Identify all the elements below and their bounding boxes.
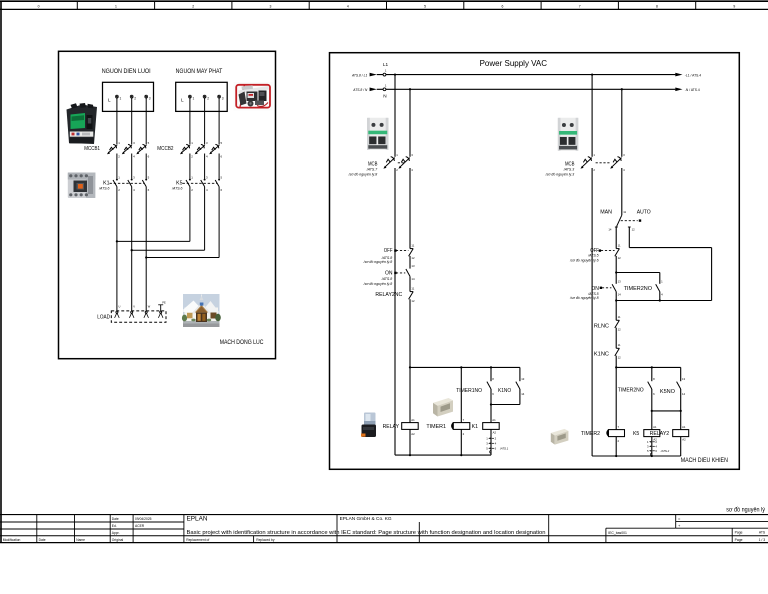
svg-text:11: 11 xyxy=(411,286,414,290)
label MAN xyxy=(600,210,612,216)
photo MCCB breaker xyxy=(67,103,98,144)
svg-text:/ATS.6: /ATS.6 xyxy=(98,187,109,191)
photo house load xyxy=(182,294,221,327)
contact K5NO xyxy=(651,367,686,429)
photo MCB right xyxy=(558,118,579,151)
label K1 xyxy=(98,181,110,191)
coil TIMER1 xyxy=(452,367,470,455)
label K5NO xyxy=(660,389,676,395)
svg-text:TIMER2NO: TIMER2NO xyxy=(624,286,653,292)
svg-text:8: 8 xyxy=(656,4,658,8)
svg-text:/sơ đồ nguyên lý.8: /sơ đồ nguyên lý.8 xyxy=(363,260,393,264)
title block drawing number xyxy=(608,531,627,535)
svg-text:MACH DONG LUC: MACH DONG LUC xyxy=(220,339,264,346)
svg-text:4: 4 xyxy=(495,442,497,446)
svg-text:Basic project with identificat: Basic project with identification struct… xyxy=(187,530,546,536)
source arrow ATS.8/L1 xyxy=(351,73,377,78)
svg-text:1: 1 xyxy=(193,97,195,101)
wire K1 outputs to load xyxy=(117,187,146,312)
svg-text:2: 2 xyxy=(618,439,620,443)
svg-text:TIMER2NO: TIMER2NO xyxy=(618,388,644,394)
title Power Supply VAC xyxy=(480,59,548,68)
svg-text:1: 1 xyxy=(486,437,488,441)
svg-text:4: 4 xyxy=(623,168,625,172)
svg-text:1: 1 xyxy=(191,176,193,180)
photo timer relay 1 xyxy=(433,398,453,417)
label OFF right xyxy=(569,248,599,263)
svg-text:2: 2 xyxy=(191,155,193,159)
svg-text:NGUON MAY PHAT: NGUON MAY PHAT xyxy=(176,68,223,75)
svg-text:A1: A1 xyxy=(411,418,415,422)
svg-text:W: W xyxy=(148,305,151,309)
svg-text:1: 1 xyxy=(385,83,387,87)
label MCCB1 xyxy=(84,146,100,152)
svg-text:RELAY: RELAY xyxy=(383,424,400,430)
svg-text:RLNC: RLNC xyxy=(594,323,609,329)
pushbutton OFF left NC xyxy=(394,243,415,260)
svg-text:Page: Page xyxy=(735,531,743,535)
contact TIMER2NO lower xyxy=(648,367,655,429)
svg-text:3: 3 xyxy=(133,176,135,180)
contact mirror K5 xyxy=(647,440,670,456)
svg-text:8: 8 xyxy=(492,377,494,381)
breaker MCB symbol right 2-pole xyxy=(581,153,626,172)
svg-text:L1: L1 xyxy=(383,62,389,67)
wire N drop left branch upper xyxy=(409,89,411,157)
svg-text:1: 1 xyxy=(118,141,120,145)
svg-text:K1: K1 xyxy=(472,424,478,430)
wire rail ON-TIMER2NO bottom xyxy=(615,299,712,301)
contactor K1 symbol 3-pole xyxy=(110,176,150,192)
destination arrow L1/ATS.4 xyxy=(675,73,701,78)
photo MCB left xyxy=(367,118,389,150)
svg-text:MACH DIEU KHIEN: MACH DIEU KHIEN xyxy=(681,457,728,464)
load terminal symbols xyxy=(115,300,166,318)
photo contactor xyxy=(68,173,96,199)
svg-text:1 / 3: 1 / 3 xyxy=(759,538,766,542)
svg-text:/ATS.8: /ATS.8 xyxy=(381,277,392,281)
label TIMER2 xyxy=(581,431,600,437)
svg-text:6: 6 xyxy=(148,155,150,159)
svg-text:TIMER2: TIMER2 xyxy=(581,431,600,437)
coil TIMER2 xyxy=(607,367,625,456)
contact TIMER1NO xyxy=(487,367,494,422)
page frame header strip xyxy=(0,1,768,9)
svg-text:2: 2 xyxy=(495,437,497,441)
coil K1 xyxy=(483,418,500,455)
svg-text:11: 11 xyxy=(618,315,621,319)
breaker MCCB2 symbol 3-pole xyxy=(180,141,223,159)
svg-text:5: 5 xyxy=(221,176,223,180)
svg-text:ON: ON xyxy=(385,270,393,276)
svg-text:14: 14 xyxy=(682,392,686,396)
photo generator xyxy=(234,82,273,111)
label TIMER2NO lower xyxy=(618,388,644,394)
svg-text:2: 2 xyxy=(191,188,193,192)
svg-text:Page: Page xyxy=(735,538,743,542)
svg-text:3: 3 xyxy=(222,97,224,101)
junctions on L1 rail xyxy=(394,73,593,75)
label MACH DIEU KHIEN xyxy=(681,457,728,464)
load dashed box xyxy=(111,311,166,322)
svg-text:12: 12 xyxy=(618,328,622,332)
wire selector to OFF right xyxy=(615,227,617,249)
svg-text:A1: A1 xyxy=(492,418,496,422)
svg-text:7: 7 xyxy=(463,418,465,422)
svg-text:A2: A2 xyxy=(682,438,686,442)
svg-text:MAN: MAN xyxy=(600,210,612,216)
breaker MCCB1 symbol 3-pole xyxy=(107,141,150,159)
contact TIMER2NO upper xyxy=(656,273,663,301)
source arrow ATS.8/N xyxy=(352,88,377,93)
title block page cells xyxy=(735,531,766,542)
label ON left xyxy=(363,270,393,286)
svg-text:EPLAN: EPLAN xyxy=(187,515,208,522)
label K5 xyxy=(171,181,183,191)
label K1NC xyxy=(594,351,609,357)
svg-text:9: 9 xyxy=(733,4,735,8)
svg-text:3: 3 xyxy=(206,176,208,180)
label NGUON DIEN LUOI xyxy=(102,68,151,75)
svg-text:4: 4 xyxy=(133,188,135,192)
svg-text:=: = xyxy=(678,516,681,521)
svg-text:1: 1 xyxy=(120,97,122,101)
svg-text:1: 1 xyxy=(115,4,117,8)
svg-text:ATS.8 / N: ATS.8 / N xyxy=(352,88,368,92)
source terminals NGUON MAY PHAT box xyxy=(176,82,228,111)
svg-text:1: 1 xyxy=(385,69,387,73)
svg-text:K5: K5 xyxy=(633,431,639,437)
label K1 coil xyxy=(472,424,478,430)
label MCCB2 xyxy=(157,146,173,152)
svg-text:13: 13 xyxy=(682,377,686,381)
svg-text:AUTO: AUTO xyxy=(637,210,651,216)
svg-text:N: N xyxy=(383,93,386,98)
selector switch MAN-AUTO xyxy=(608,210,641,231)
wire generator supply feeders xyxy=(190,98,219,179)
svg-text:2: 2 xyxy=(192,4,194,8)
svg-text:L: L xyxy=(181,98,184,103)
wire parallel rail top right xyxy=(615,366,681,368)
svg-text:A2: A2 xyxy=(411,432,415,436)
svg-text:/sơ đồ nguyên lý.8: /sơ đồ nguyên lý.8 xyxy=(363,282,393,286)
svg-text:6: 6 xyxy=(501,4,503,8)
svg-text:Original: Original xyxy=(112,538,124,542)
svg-text:1: 1 xyxy=(191,141,193,145)
label OFF left xyxy=(363,248,393,264)
svg-text:/sơ đồ nguyên lý.3: /sơ đồ nguyên lý.3 xyxy=(545,172,575,176)
svg-text:2: 2 xyxy=(463,432,465,436)
control circuit enclosure box xyxy=(330,53,740,470)
power circuit enclosure box xyxy=(59,51,276,358)
label MCB right xyxy=(545,162,575,177)
label TIMER1 xyxy=(426,424,446,430)
svg-text:4: 4 xyxy=(206,188,208,192)
label NGUON MAY PHAT xyxy=(176,68,223,75)
svg-text:14: 14 xyxy=(411,277,415,281)
svg-text:2: 2 xyxy=(396,168,398,172)
svg-text:EPLAN GmbH & Co. KG: EPLAN GmbH & Co. KG xyxy=(340,516,392,522)
svg-text:4: 4 xyxy=(133,155,135,159)
svg-text:LOAD: LOAD xyxy=(97,314,110,320)
wire grid supply feeders xyxy=(117,98,146,179)
svg-text:6: 6 xyxy=(495,447,497,451)
page title so do nguyen ly xyxy=(726,504,765,513)
svg-text:5: 5 xyxy=(221,141,223,145)
svg-text:A1: A1 xyxy=(682,425,686,429)
svg-text:4: 4 xyxy=(411,168,413,172)
svg-text:V: V xyxy=(133,305,135,309)
label TIMER1NO xyxy=(456,388,482,394)
wire ON to RELAY2NC xyxy=(409,276,411,291)
svg-text:12: 12 xyxy=(618,356,622,360)
svg-text:12: 12 xyxy=(632,227,636,231)
svg-text:1: 1 xyxy=(661,279,663,283)
svg-text:5: 5 xyxy=(148,141,150,145)
wire control chain left upper xyxy=(409,168,411,249)
wire rail ON-TIMER2NO top xyxy=(615,271,660,273)
page left border xyxy=(0,1,2,542)
coil RELAY2 xyxy=(673,425,689,456)
destination arrow N/ATS.4 xyxy=(675,88,700,93)
svg-text:6: 6 xyxy=(148,188,150,192)
svg-text:1: 1 xyxy=(118,176,120,180)
svg-text:Ed.: Ed. xyxy=(112,524,117,528)
svg-text:5: 5 xyxy=(486,447,488,451)
contact RELAY2NC xyxy=(409,286,415,303)
svg-text:/ATS.1: /ATS.1 xyxy=(499,447,509,451)
photo plug-in relay xyxy=(361,413,376,438)
wire bottom rail left xyxy=(395,454,491,456)
svg-text:14: 14 xyxy=(618,292,622,296)
svg-text:2: 2 xyxy=(118,188,120,192)
label K5 coil xyxy=(633,431,639,437)
svg-text:3: 3 xyxy=(411,153,413,157)
label RLNC xyxy=(594,323,609,329)
svg-text:2: 2 xyxy=(655,440,657,444)
svg-text:Date: Date xyxy=(112,517,119,521)
svg-text:3: 3 xyxy=(149,97,151,101)
svg-text:ATS.8 / L1: ATS.8 / L1 xyxy=(351,73,367,77)
pushbutton ON left NO xyxy=(394,264,415,281)
svg-text:ACER: ACER xyxy=(135,524,145,528)
svg-text:Replaced by: Replaced by xyxy=(256,538,275,542)
label MACH DONG LUC xyxy=(220,339,264,346)
contact RLNC xyxy=(615,301,621,349)
svg-text:2: 2 xyxy=(134,97,136,101)
svg-text:/sơ đồ nguyên lý.8: /sơ đồ nguyên lý.8 xyxy=(348,172,378,176)
svg-text:7: 7 xyxy=(579,4,581,8)
label K1NO xyxy=(498,388,512,394)
svg-text:/sơ đồ nguyên lý.8: /sơ đồ nguyên lý.8 xyxy=(569,296,599,300)
svg-text:RELAY2NC: RELAY2NC xyxy=(375,292,402,298)
svg-text:+: + xyxy=(678,523,681,528)
svg-text:13: 13 xyxy=(521,377,525,381)
svg-text:U: U xyxy=(119,305,121,309)
svg-text:/ATS.6: /ATS.6 xyxy=(171,187,182,191)
svg-text:3: 3 xyxy=(623,153,625,157)
svg-text:Appr.: Appr. xyxy=(112,531,120,535)
terminal L1 xyxy=(383,62,389,76)
terminal N xyxy=(383,83,387,98)
svg-text:K1NC: K1NC xyxy=(594,351,609,357)
svg-text:-N / ATS.4: -N / ATS.4 xyxy=(685,88,700,92)
svg-text:K5NO: K5NO xyxy=(660,389,676,395)
svg-text:/sơ đồ nguyên lý.6: /sơ đồ nguyên lý.6 xyxy=(569,259,599,263)
svg-text:TIMER1: TIMER1 xyxy=(426,424,446,430)
label AUTO xyxy=(637,210,651,216)
coil K5 xyxy=(644,425,660,456)
svg-text:A1: A1 xyxy=(653,425,657,429)
svg-text:NGUON DIEN LUOI: NGUON DIEN LUOI xyxy=(102,68,151,75)
svg-text:12: 12 xyxy=(411,256,415,260)
svg-text:12: 12 xyxy=(618,256,622,260)
svg-text:OFF: OFF xyxy=(384,248,393,254)
svg-text:/ATS.2: /ATS.2 xyxy=(660,449,670,453)
svg-text:ATS: ATS xyxy=(759,531,766,535)
pushbutton ON right NO xyxy=(600,273,621,301)
svg-text:A2: A2 xyxy=(493,431,497,435)
title block project text xyxy=(187,515,546,536)
title block grid xyxy=(0,515,768,543)
label RELAY xyxy=(383,424,400,430)
svg-text:6: 6 xyxy=(221,155,223,159)
svg-text:11: 11 xyxy=(618,243,621,247)
svg-text:Replacement of: Replacement of xyxy=(186,538,209,542)
contact mirror K1 xyxy=(486,437,509,454)
svg-text:0: 0 xyxy=(38,4,40,8)
svg-text:MCCB2: MCCB2 xyxy=(157,146,173,152)
svg-text:5: 5 xyxy=(424,4,426,8)
wire OFF right to branch rail xyxy=(615,256,617,273)
photo timer relay 2 xyxy=(551,429,569,445)
svg-text:-L1 / ATS.4: -L1 / ATS.4 xyxy=(685,74,701,78)
svg-text:2: 2 xyxy=(118,155,120,159)
svg-text:2: 2 xyxy=(207,97,209,101)
svg-text:14: 14 xyxy=(608,227,612,231)
svg-text:3: 3 xyxy=(270,4,272,8)
svg-text:11: 11 xyxy=(618,343,621,347)
svg-text:09/04/2025: 09/04/2025 xyxy=(135,517,152,521)
breaker MCB symbol left 2-pole xyxy=(383,153,413,172)
contactor K5 symbol 3-pole xyxy=(183,176,223,192)
label ON right xyxy=(569,286,599,300)
label RELAY2NC xyxy=(375,292,402,298)
label TIMER2NO upper xyxy=(624,286,653,292)
wire AUTO path loop xyxy=(629,227,711,301)
svg-text:11: 11 xyxy=(411,243,414,247)
svg-text:RELAY2: RELAY2 xyxy=(650,431,670,437)
title block company xyxy=(340,516,392,522)
svg-text:5: 5 xyxy=(148,176,150,180)
svg-text:6: 6 xyxy=(653,392,655,396)
svg-text:1: 1 xyxy=(593,153,595,157)
svg-text:PE: PE xyxy=(162,300,166,304)
svg-text:13: 13 xyxy=(618,279,622,283)
junctions on N rail xyxy=(409,88,623,90)
svg-text:8: 8 xyxy=(653,377,655,381)
header column numbers xyxy=(38,4,736,8)
wire parallel rail top left xyxy=(409,366,520,368)
svg-text:6: 6 xyxy=(492,392,494,396)
svg-text:Power Supply VAC: Power Supply VAC xyxy=(480,59,548,68)
svg-text:3: 3 xyxy=(486,442,488,446)
wire L1 rail xyxy=(377,74,676,76)
svg-text:11: 11 xyxy=(623,210,626,214)
label RELAY2 xyxy=(650,431,670,437)
wire bottom rail right xyxy=(592,455,681,457)
svg-text:6: 6 xyxy=(221,188,223,192)
svg-text:3: 3 xyxy=(647,445,649,449)
svg-text:L: L xyxy=(108,98,111,103)
svg-text:Date: Date xyxy=(39,538,46,542)
wire K5 outputs crossover to load xyxy=(116,187,219,259)
svg-text:/ATS.5: /ATS.5 xyxy=(587,254,598,258)
wire RELAY2NC to rail xyxy=(409,299,411,367)
svg-text:4: 4 xyxy=(347,4,349,8)
svg-text:3: 3 xyxy=(133,141,135,145)
svg-text:13: 13 xyxy=(411,264,415,268)
svg-text:IEC_bas001: IEC_bas001 xyxy=(608,531,627,535)
svg-text:TIMER1NO: TIMER1NO xyxy=(456,388,482,394)
svg-text:1: 1 xyxy=(647,440,649,444)
label LOAD xyxy=(97,314,110,320)
contact K1NC xyxy=(615,343,621,367)
svg-text:4: 4 xyxy=(661,292,663,296)
wire N rail xyxy=(377,88,676,90)
svg-text:1: 1 xyxy=(396,153,398,157)
label MCB left xyxy=(348,162,379,177)
wire L1 drop left branch xyxy=(394,75,396,456)
svg-text:Modification: Modification xyxy=(3,538,21,542)
svg-text:MCCB1: MCCB1 xyxy=(84,146,100,152)
svg-text:5: 5 xyxy=(647,449,649,453)
svg-text:4: 4 xyxy=(206,155,208,159)
pushbutton OFF right NC xyxy=(599,243,621,260)
title block structure ids xyxy=(678,516,681,528)
svg-text:2: 2 xyxy=(593,168,595,172)
wire L1 drop right branch xyxy=(591,75,593,456)
wire N drop right branch xyxy=(621,89,623,215)
svg-text:/ATS.7: /ATS.7 xyxy=(366,167,378,171)
svg-text:Name: Name xyxy=(76,538,85,542)
svg-text:4: 4 xyxy=(655,445,657,449)
title block left labels xyxy=(3,517,275,542)
source terminals NGUON DIEN LUOI box xyxy=(103,82,154,111)
svg-text:7: 7 xyxy=(618,425,620,429)
svg-text:6: 6 xyxy=(655,449,657,453)
wire OFF to ON left xyxy=(409,256,411,269)
coil RELAY xyxy=(402,367,419,455)
svg-text:K1NO: K1NO xyxy=(498,388,512,394)
svg-text:14: 14 xyxy=(521,392,525,396)
svg-text:12: 12 xyxy=(411,299,415,303)
svg-text:sơ đồ nguyên lý: sơ đồ nguyên lý xyxy=(726,504,765,513)
svg-text:3: 3 xyxy=(206,141,208,145)
svg-text:/ATS.3: /ATS.3 xyxy=(563,167,574,171)
contact K1NO xyxy=(490,367,525,405)
